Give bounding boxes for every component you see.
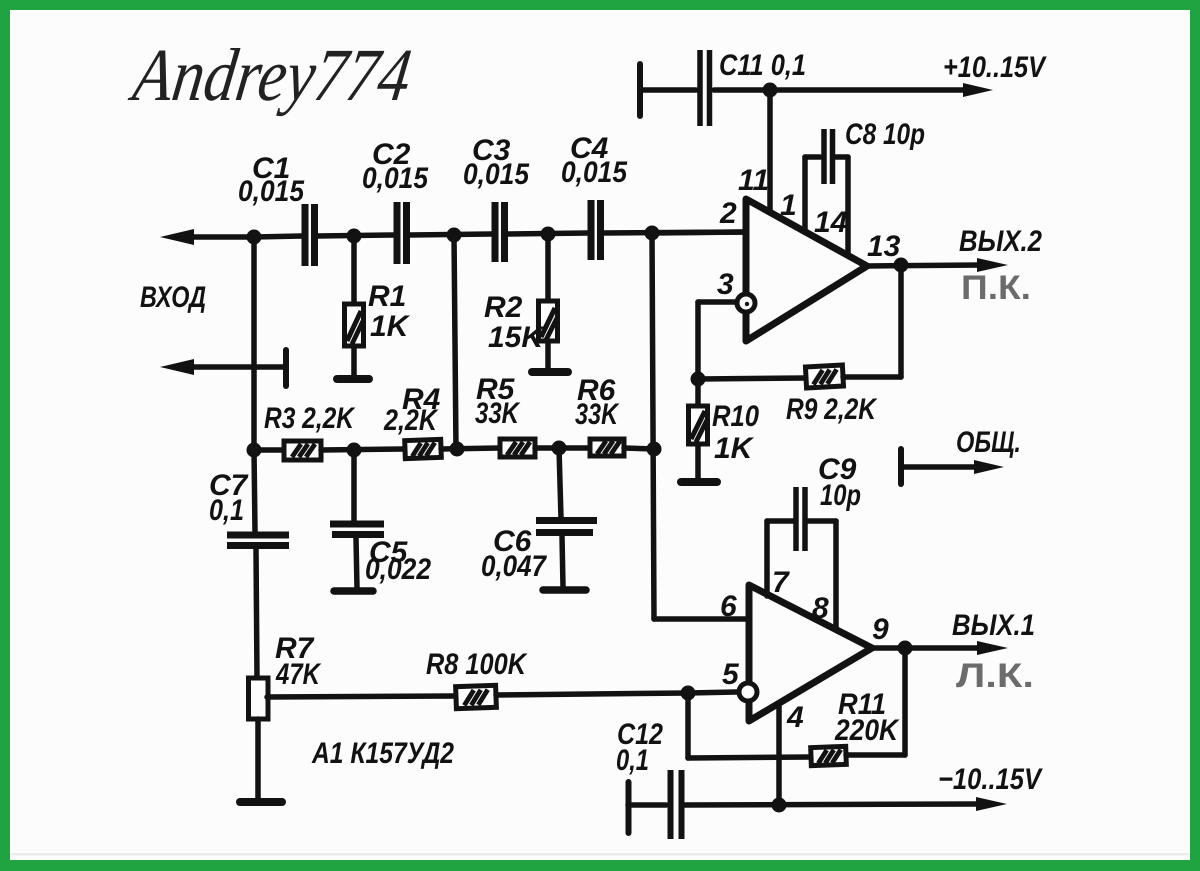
node row-1: [247, 443, 262, 458]
wire pin 8: [807, 518, 836, 524]
node rail-2: [347, 229, 362, 244]
svg-text:A1 К157УД2: A1 К157УД2: [311, 737, 454, 770]
resistor R9: [805, 365, 843, 388]
wire pin 5: [688, 692, 737, 693]
svg-text:1: 1: [780, 189, 797, 222]
wire pin 3: [698, 299, 735, 305]
wire resistor row seg2: [321, 449, 405, 450]
wire pin 4: [776, 703, 782, 805]
wire feedback down U1: [898, 265, 904, 377]
svg-text:R3 2,2K: R3 2,2K: [264, 402, 356, 435]
node rail-3: [447, 228, 462, 243]
wire main rail seg1: [254, 236, 302, 237]
wire output U1: [867, 265, 982, 266]
capacitor C11: [641, 87, 696, 93]
terminal bar input: [283, 350, 289, 386]
svg-text:2: 2: [719, 197, 737, 230]
wire pin 11: [767, 90, 773, 213]
wire main rail seg3: [409, 234, 492, 235]
capacitor C7: [254, 450, 255, 531]
svg-text:15K: 15K: [488, 321, 545, 354]
svg-text:33K: 33K: [575, 398, 620, 431]
capacitor C1: [302, 204, 309, 266]
node row-2: [347, 443, 362, 458]
node output U2: [898, 641, 913, 656]
wire pin 14: [836, 154, 848, 160]
capacitor C4: [588, 200, 595, 260]
resistor R5: [500, 439, 535, 457]
ground (R1): [337, 375, 369, 383]
wire pin5 down: [685, 693, 691, 758]
svg-text:ОБЩ.: ОБЩ.: [956, 426, 1021, 459]
wire R11 right: [846, 752, 905, 758]
arrow +10..15V: [963, 83, 993, 97]
wire pin 7: [764, 521, 770, 596]
svg-text:ВЫХ.1: ВЫХ.1: [952, 609, 1035, 642]
ground (R10): [681, 478, 717, 486]
svg-text:14: 14: [814, 206, 848, 239]
node rail-5: [645, 226, 660, 241]
capacitor C8: [821, 129, 827, 184]
node row-5: [647, 442, 662, 457]
svg-text:10p: 10p: [820, 479, 861, 512]
svg-text:R10: R10: [712, 400, 759, 433]
wire mid vertical (rail to R4/R5 node): [454, 235, 456, 450]
svg-text:47K: 47K: [275, 658, 322, 691]
svg-text:0,1: 0,1: [616, 744, 649, 777]
wire +V rail: [714, 87, 968, 93]
svg-text:ВЫХ.2: ВЫХ.2: [959, 225, 1042, 258]
wire output U2: [872, 645, 982, 651]
resistor R11: [811, 746, 847, 765]
capacitor C5: [351, 450, 357, 521]
wire main rail seg5 to op-amp pin2: [603, 232, 746, 233]
resistor R1: [351, 236, 357, 304]
svg-text:C11 0,1: C11 0,1: [719, 49, 806, 82]
ground (C5): [334, 587, 373, 595]
arrow -10..15V: [976, 797, 1007, 811]
node output U1: [894, 258, 909, 273]
svg-text:0,015: 0,015: [561, 156, 628, 189]
input arrow lower (ВХОД ground): [160, 359, 194, 375]
svg-text:Andrey774: Andrey774: [124, 34, 416, 117]
wire -V rail: [685, 804, 981, 805]
svg-text:9: 9: [872, 613, 889, 646]
input arrow upper (ВХОД signal): [160, 229, 194, 245]
ground (R2): [532, 368, 568, 376]
svg-text:1K: 1K: [714, 432, 755, 465]
svg-text:Л.К.: Л.К.: [956, 657, 1034, 695]
svg-text:13: 13: [867, 230, 901, 263]
inverting input bubble U2: [739, 683, 757, 701]
svg-text:0,015: 0,015: [463, 158, 530, 191]
svg-text:7: 7: [772, 566, 790, 599]
wire R11 left: [688, 757, 811, 758]
capacitor C6: [559, 448, 561, 518]
svg-text:8: 8: [812, 592, 829, 625]
op-amp U1 (triangle): [746, 199, 867, 341]
svg-text:C8 10p: C8 10p: [845, 118, 925, 151]
resistor R8: [267, 696, 456, 697]
svg-text:220K: 220K: [834, 714, 900, 747]
capacitor C12: [628, 802, 666, 808]
wire R9 right: [843, 374, 901, 380]
arrow ВЫХ.2: [977, 258, 1008, 272]
wire pin3 down: [695, 302, 701, 379]
svg-text:−10..15V: −10..15V: [938, 763, 1044, 796]
svg-text:2,2K: 2,2K: [383, 404, 439, 437]
node pin11 rail: [763, 83, 778, 98]
terminal bar C11: [637, 64, 643, 116]
wire R9 left: [698, 378, 806, 379]
svg-text:R8 100K: R8 100K: [426, 648, 528, 681]
svg-text:0,015: 0,015: [362, 162, 429, 195]
inverting input bubble U1: [737, 294, 755, 312]
wire pin 2: [652, 232, 746, 233]
capacitor C2: [394, 202, 401, 264]
svg-text:0,1: 0,1: [209, 494, 244, 527]
svg-text:П.К.: П.К.: [961, 269, 1031, 307]
svg-text:3: 3: [717, 268, 734, 301]
node pin4 rail: [772, 798, 787, 813]
resistor R6: [590, 439, 624, 456]
node row-3: [450, 442, 465, 457]
svg-text:ВХОД: ВХОД: [140, 281, 206, 314]
capacitor C3: [492, 202, 499, 262]
svg-text:4: 4: [786, 701, 804, 734]
node pin5/R8: [681, 686, 696, 701]
wire left vertical (input to R3): [251, 237, 257, 450]
wire pin 1: [802, 157, 808, 232]
svg-text:R9 2,2K: R9 2,2K: [786, 393, 878, 426]
resistor R2: [545, 234, 551, 303]
capacitor C9: [793, 487, 799, 551]
svg-text:R2: R2: [484, 291, 523, 324]
svg-text:6: 6: [720, 590, 737, 623]
resistor R7: [249, 678, 269, 719]
ground (C6): [543, 586, 586, 594]
wire main rail seg2: [317, 235, 394, 236]
wire feedback down U2: [902, 648, 908, 755]
wire resistor row seg1: [254, 447, 286, 453]
arrow ОБЩ: [974, 460, 1004, 474]
wire pin 6: [654, 616, 749, 622]
svg-text:0,015: 0,015: [238, 175, 305, 208]
svg-text:+10..15V: +10..15V: [943, 51, 1048, 84]
svg-text:11: 11: [738, 164, 769, 197]
node rail-4: [541, 227, 556, 242]
node row-4: [552, 441, 567, 456]
wire resistor row seg4: [535, 445, 590, 451]
resistor R10: [695, 379, 701, 406]
ground (R7): [240, 798, 282, 806]
svg-text:0,022: 0,022: [365, 553, 431, 586]
wire right vertical (rail to pin6): [652, 233, 654, 619]
svg-text:1K: 1K: [370, 310, 411, 343]
terminal ОБЩ: [898, 449, 904, 484]
svg-text:33K: 33K: [475, 397, 521, 430]
node R9/R10: [691, 372, 706, 387]
wire resistor row seg3: [441, 448, 500, 449]
arrow ВЫХ.1: [977, 641, 1008, 655]
node rail-1: [247, 230, 262, 245]
svg-text:R1: R1: [368, 280, 406, 313]
wire main rail seg4: [507, 233, 588, 234]
svg-text:5: 5: [722, 658, 740, 691]
terminal bar C12: [626, 782, 632, 833]
resistor R4: [405, 439, 442, 458]
wire resistor row seg5: [624, 448, 654, 449]
resistor R3: [284, 441, 321, 460]
svg-text:0,047: 0,047: [481, 550, 547, 583]
op-amp U2 (triangle): [749, 585, 872, 721]
